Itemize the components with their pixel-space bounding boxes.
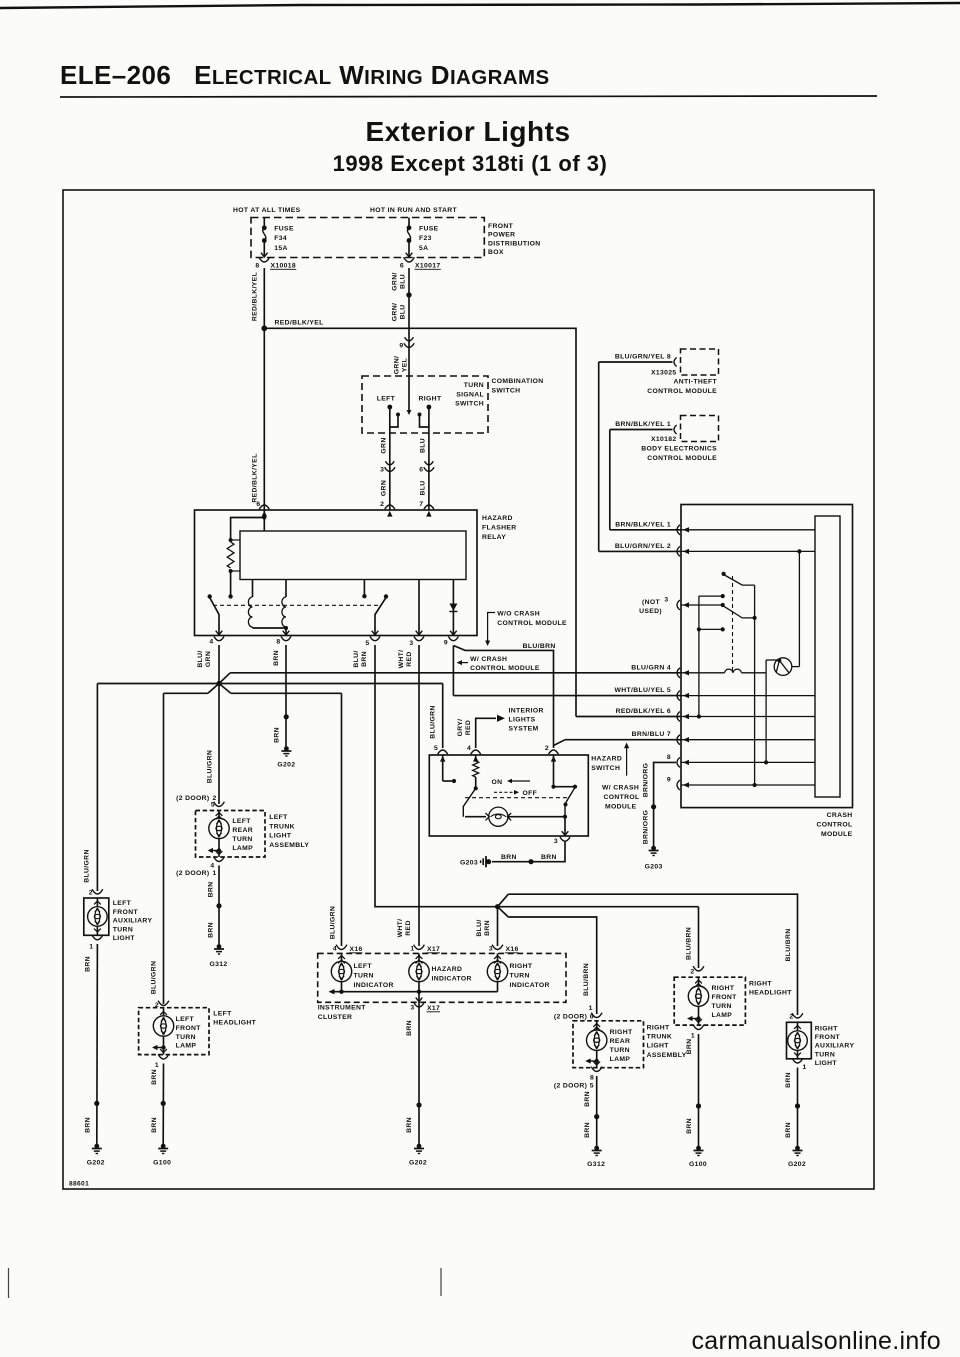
cluster internal ground bus (329, 982, 498, 995)
svg-text:LEFT: LEFT (176, 1016, 195, 1023)
svg-text:BRN/BLK/YEL 1: BRN/BLK/YEL 1 (615, 421, 671, 428)
connector bow at X13025 (674, 358, 677, 367)
label RIGHT TRUNK LIGHT ASSEMBLY (647, 1024, 687, 1059)
svg-text:FUSE: FUSE (419, 226, 439, 233)
hazard switch mechanical link (dashed) (465, 797, 570, 799)
crash module vertical to pin 6 line (697, 596, 701, 719)
label LEFT HEADLIGHT (213, 1011, 256, 1027)
svg-text:1: 1 (89, 944, 93, 951)
connector 6 in-line on BLU wire (419, 461, 434, 473)
svg-text:INDICATOR: INDICATOR (432, 976, 472, 983)
svg-text:(NOT: (NOT (642, 599, 661, 606)
svg-text:1: 1 (155, 1062, 159, 1069)
relay pin 9 exit (450, 631, 457, 635)
wire vertical link pin8 to pin2 line (598, 362, 600, 551)
wire relay resistor branch (231, 518, 265, 541)
hazard switch right blade (564, 785, 578, 817)
svg-text:HAZARD: HAZARD (432, 966, 463, 973)
svg-text:(2 DOOR): (2 DOOR) (176, 795, 209, 802)
connector 3 X16 cluster entry (489, 945, 519, 964)
svg-text:TRUNK: TRUNK (647, 1034, 673, 1041)
node relay left fixed contact (228, 594, 232, 598)
svg-text:FRONT: FRONT (712, 994, 738, 1001)
svg-text:15A: 15A (274, 245, 288, 252)
wire RED/BLK/YEL from fuse F34 down to hazard relay pin 6 (263, 268, 265, 510)
svg-text:HOT AT ALL TIMES: HOT AT ALL TIMES (233, 207, 301, 214)
svg-text:LEFT: LEFT (213, 1011, 232, 1018)
svg-text:GRN: GRN (380, 437, 387, 453)
crash control module box (681, 505, 853, 808)
svg-text:1: 1 (589, 1005, 593, 1012)
wire BRN right rear lamp to ground G312 (594, 1076, 599, 1148)
wire BRN left aux light to ground G202 (94, 944, 99, 1146)
svg-text:BRN/BLU 7: BRN/BLU 7 (632, 731, 671, 738)
svg-text:X17: X17 (427, 946, 440, 953)
hazard switch pin 3 exit (554, 817, 570, 845)
svg-text:AUXILIARY: AUXILIARY (815, 1043, 855, 1050)
svg-text:RIGHT: RIGHT (647, 1024, 670, 1031)
connector 1 at left aux light (89, 935, 103, 951)
svg-text:BLU/GRN/YEL 2: BLU/GRN/YEL 2 (615, 543, 671, 550)
svg-text:4: 4 (209, 639, 213, 646)
ground G203 right (645, 846, 663, 871)
svg-text:1: 1 (691, 1033, 695, 1040)
svg-text:BRN: BRN (361, 651, 368, 667)
connector 9 in-line on GRN/YEL wire (399, 337, 414, 349)
label FRONT POWER DISTRIBUTION BOX (488, 223, 541, 256)
node splice on GRN/BLU wire (406, 292, 411, 297)
svg-text:8: 8 (276, 639, 280, 646)
svg-text:X10182: X10182 (651, 436, 677, 443)
wire BRN relay pin 8 to ground G202 (285, 645, 287, 749)
relay pin 7 entry (424, 505, 434, 509)
svg-text:X17: X17 (427, 1005, 440, 1012)
relay pin 4 exit (216, 631, 223, 635)
svg-text:RIGHT: RIGHT (749, 981, 772, 988)
svg-text:5A: 5A (419, 245, 428, 252)
wire BLU/GRN down to left headlight (163, 693, 165, 1004)
label (2 DOOR) 5 (554, 1083, 594, 1090)
svg-text:8: 8 (590, 1075, 594, 1082)
wire junction horizontal left-right (97, 683, 442, 685)
svg-text:BLU/GRN 4: BLU/GRN 4 (631, 664, 671, 671)
svg-text:RED/BLK/YEL: RED/BLK/YEL (275, 320, 324, 327)
wire lower horizontal right segment to instrument cluster (231, 692, 342, 694)
junction diagonals (208, 673, 231, 694)
ground G312 below left rear lamp (209, 944, 227, 968)
crash module internal dashed link (732, 576, 734, 671)
wire RED/BLK/YEL horizontal branch to right side (264, 328, 576, 716)
connector 3 X17 cluster exit (410, 992, 440, 1012)
crash module vertical from pin2 line to transistor (797, 549, 801, 666)
svg-text:F34: F34 (274, 235, 287, 242)
svg-text:LIGHT: LIGHT (647, 1043, 670, 1050)
label HAZARD FLASHER RELAY (482, 515, 517, 541)
svg-text:BRN: BRN (785, 1072, 792, 1088)
wire BLU from turn switch RIGHT to relay pin 7 (428, 433, 430, 510)
svg-text:BRN: BRN (406, 1020, 413, 1036)
svg-text:carmanualsonline.info: carmanualsonline.info (691, 1327, 941, 1355)
svg-text:HAZARD: HAZARD (482, 515, 513, 522)
svg-text:GRY/: GRY/ (457, 719, 464, 737)
wire BLU/BRN to right front turn lamp (698, 907, 700, 968)
label W/ CRASH CONTROL MODULE with pointer (457, 656, 540, 672)
crash module transistor driver (764, 658, 799, 765)
crash module pin 6 (616, 708, 815, 722)
svg-text:LEFT: LEFT (354, 963, 373, 970)
svg-text:4: 4 (333, 946, 337, 953)
connector 1 at right front aux light (792, 1058, 807, 1071)
node lamps feed junction (495, 904, 500, 909)
svg-text:TURN: TURN (113, 926, 133, 933)
right front turn lamp bulb (687, 977, 709, 1025)
relay right switch blade and pin 5 wire (375, 594, 388, 634)
svg-text:8: 8 (667, 754, 671, 761)
svg-text:3: 3 (409, 640, 413, 647)
svg-text:RED: RED (406, 651, 413, 666)
svg-text:SWITCH: SWITCH (591, 765, 620, 772)
svg-text:9: 9 (444, 640, 448, 647)
svg-text:BLU/: BLU/ (476, 919, 483, 936)
wire lower horizontal left segment to left headlight (164, 692, 208, 694)
svg-text:2: 2 (380, 501, 384, 508)
svg-text:2: 2 (690, 969, 694, 976)
svg-text:W/ CRASH: W/ CRASH (602, 785, 639, 792)
wire RED/BLK/YEL 6 horizontal to crash control module (576, 716, 681, 718)
wire BLU/BRN relay pin 5 down and right to lamps junction (375, 645, 699, 907)
label BLU/BRN at cluster (476, 919, 491, 936)
svg-text:OFF: OFF (523, 790, 538, 797)
svg-text:G203: G203 (645, 864, 663, 871)
svg-text:LIGHT: LIGHT (269, 833, 292, 840)
wire BRN/BLK/YEL 1 horizontal to crash module pin 1 (610, 529, 681, 531)
wire WHT/BLU/YEL 5 horizontal to crash control module (453, 695, 681, 697)
fuse F23 5A (406, 218, 439, 258)
svg-text:LEFT: LEFT (269, 814, 288, 821)
wire BRN right front turn lamp to ground G100 (696, 1034, 701, 1148)
svg-text:INDICATOR: INDICATOR (510, 982, 550, 989)
label RIGHT FRONT AUXILIARY TURN LIGHT (815, 1026, 855, 1067)
left front auxiliary turn light box (84, 898, 109, 935)
connector 8 below right rear lamp (590, 1067, 602, 1082)
ground G202 bottom right (788, 1146, 806, 1168)
left front turn lamp bulb (152, 1008, 174, 1055)
svg-text:BRN: BRN (273, 727, 280, 743)
ground G100 bottom (689, 1146, 707, 1168)
svg-text:TURN: TURN (354, 973, 374, 980)
svg-text:BLU: BLU (419, 480, 426, 495)
crash module upper switch (722, 572, 755, 585)
svg-text:(2 DOOR): (2 DOOR) (176, 870, 209, 877)
svg-text:G202: G202 (409, 1160, 427, 1167)
svg-text:LAMP: LAMP (176, 1043, 197, 1050)
label W/O CRASH CONTROL MODULE with pointer (485, 611, 567, 647)
label GRN/BLU upper (392, 272, 407, 290)
relay pin 2 entry (385, 505, 395, 509)
connector X10017 pin 6 (400, 257, 441, 269)
svg-text:LIGHT: LIGHT (113, 935, 136, 942)
svg-text:TURN: TURN (464, 382, 484, 389)
svg-text:BLU/GRN: BLU/GRN (430, 705, 437, 738)
svg-text:ELE–206 ELECTRICAL WIRING DI: ELE–206 ELECTRICAL WIRING DIAGRAMS (60, 60, 550, 90)
label LEFT REAR TURN LAMP (232, 818, 253, 852)
wire resistor to switch contact (230, 571, 232, 595)
svg-text:BOX: BOX (488, 249, 504, 256)
label (2 DOOR) 1 (176, 870, 217, 877)
junction diagonals right (498, 894, 509, 917)
wire BLU/GRN down to left front auxiliary light (96, 684, 98, 892)
label BLU/GRN below relay pin 4 (197, 650, 212, 667)
label COMBINATION SWITCH (492, 378, 544, 394)
svg-text:GRN: GRN (205, 651, 212, 667)
svg-text:G202: G202 (87, 1160, 105, 1167)
ground G202 bottom far left (87, 1144, 105, 1167)
page edge tick marks (9, 1268, 442, 1298)
svg-text:BLU: BLU (400, 304, 407, 319)
fuse F34 15A (261, 218, 294, 258)
node resistor top (229, 538, 233, 542)
svg-text:BRN: BRN (151, 1069, 158, 1085)
svg-text:W/O CRASH: W/O CRASH (497, 611, 540, 618)
connector 1 X17 cluster entry (410, 945, 440, 964)
relay pin 8 exit (283, 631, 290, 635)
svg-text:USED): USED) (639, 608, 662, 615)
right front turn lamp box (dashed) (674, 977, 745, 1025)
svg-text:REAR: REAR (232, 827, 253, 834)
svg-text:COMBINATION: COMBINATION (492, 378, 544, 385)
relay pin 3 wire from module (418, 580, 420, 635)
svg-text:CONTROL MODULE: CONTROL MODULE (497, 620, 567, 627)
wire BRN/BLK/YEL 1 to body electronics module (610, 429, 673, 431)
relay internal module box (240, 531, 466, 580)
svg-text:BLU/BRN: BLU/BRN (785, 928, 792, 961)
svg-text:BRN: BRN (273, 650, 280, 666)
svg-text:5: 5 (365, 640, 369, 647)
right rear turn lamp bulb (585, 1021, 607, 1068)
hazard flasher relay box (195, 510, 478, 636)
svg-text:CONTROL: CONTROL (816, 822, 852, 829)
svg-text:ASSEMBLY: ASSEMBLY (269, 842, 309, 849)
svg-text:8: 8 (255, 263, 259, 270)
svg-text:(2 DOOR): (2 DOOR) (554, 1083, 587, 1090)
svg-text:SWITCH: SWITCH (492, 387, 521, 394)
svg-text:BRN: BRN (207, 882, 214, 898)
svg-text:RED/BLK/YEL 6: RED/BLK/YEL 6 (616, 708, 671, 715)
hazard switch left blade (463, 788, 475, 816)
svg-text:1: 1 (410, 946, 414, 953)
svg-text:RELAY: RELAY (482, 534, 506, 541)
svg-text:3: 3 (554, 838, 558, 845)
svg-text:BLU/BRN: BLU/BRN (583, 963, 590, 996)
wire BRN/BLU 7 horizontal to crash control module (554, 740, 682, 746)
svg-text:Exterior Lights: Exterior Lights (365, 116, 570, 147)
wire BRN/ORG crash module pin 8 to ground G203 (651, 762, 676, 848)
crash module lower fixed contact (697, 627, 725, 631)
label RIGHT FRONT TURN LAMP (712, 985, 738, 1019)
svg-text:X10018: X10018 (271, 263, 297, 270)
svg-text:X16: X16 (506, 946, 519, 953)
node splice on RED/BLK/YEL wire (261, 325, 267, 331)
left turn indicator lamp (331, 953, 393, 989)
wire WHT/RED relay pin 3 down to instrument cluster (418, 645, 420, 946)
svg-text:HEADLIGHT: HEADLIGHT (213, 1020, 256, 1027)
svg-text:3: 3 (380, 467, 384, 474)
svg-text:RIGHT: RIGHT (419, 396, 442, 403)
label INSTRUMENT CLUSTER (318, 1005, 367, 1022)
crash module pin 9 (667, 777, 815, 791)
svg-text:G312: G312 (587, 1161, 605, 1168)
svg-text:BLU: BLU (400, 274, 407, 289)
svg-text:G203: G203 (460, 860, 478, 867)
wire BLU/BRN to right rear turn lamp (508, 917, 596, 1014)
wire BLU/GRN 4 horizontal to crash control module (230, 672, 681, 674)
ground G202 below cluster (409, 1144, 427, 1167)
relay mechanical link (dashed) (213, 604, 381, 606)
svg-text:BRN: BRN (484, 920, 491, 936)
wire vertical link to crash pin1 line (609, 430, 611, 530)
svg-text:G100: G100 (153, 1160, 171, 1167)
label OFF with dashed arrow (494, 790, 537, 797)
svg-text:ON: ON (492, 779, 503, 786)
connector 3 in-line on GRN wire (380, 461, 395, 473)
label HAZARD SWITCH (591, 756, 622, 773)
relay center contact from module (362, 580, 366, 599)
hazard switch indicator lamp (465, 807, 567, 826)
label ON with arrow (492, 779, 531, 786)
svg-text:CONTROL MODULE: CONTROL MODULE (647, 455, 717, 462)
connector 4 X16 cluster entry (333, 945, 363, 964)
svg-text:88601: 88601 (69, 1181, 89, 1188)
svg-text:FLASHER: FLASHER (482, 525, 517, 532)
connector 2 at left aux light (89, 889, 103, 896)
svg-text:TURN: TURN (815, 1051, 835, 1058)
svg-text:G202: G202 (788, 1161, 806, 1168)
label WHT/RED at cluster (397, 919, 412, 938)
svg-text:DISTRIBUTION: DISTRIBUTION (488, 240, 541, 247)
svg-text:HOT IN RUN AND START: HOT IN RUN AND START (370, 207, 458, 214)
svg-text:2: 2 (89, 890, 93, 897)
svg-text:BRN: BRN (584, 1091, 591, 1107)
left rear turn lamp box (dashed) (196, 811, 266, 858)
connector 2 at right front turn lamp (690, 966, 704, 975)
svg-text:FRONT: FRONT (176, 1025, 202, 1032)
svg-text:BODY ELECTRONICS: BODY ELECTRONICS (641, 446, 717, 453)
svg-text:3: 3 (410, 1005, 414, 1012)
right front auxiliary turn light box (787, 1022, 812, 1059)
svg-text:BRN: BRN (541, 854, 557, 861)
node main left junction (216, 681, 221, 686)
svg-text:TURN: TURN (510, 973, 530, 980)
label ANTI-THEFT CONTROL MODULE (647, 379, 717, 396)
svg-text:SYSTEM: SYSTEM (509, 726, 539, 733)
svg-text:BRN/BLK/YEL 1: BRN/BLK/YEL 1 (615, 521, 671, 528)
svg-text:HAZARD: HAZARD (591, 756, 622, 763)
svg-text:WHT/: WHT/ (398, 650, 405, 669)
label (2 DOOR) 2 and pin 5 (176, 795, 217, 809)
svg-text:GRN/: GRN/ (392, 272, 399, 290)
svg-text:LIGHTS: LIGHTS (509, 717, 536, 724)
svg-text:1: 1 (803, 1064, 807, 1071)
svg-text:RED: RED (465, 720, 472, 735)
connector 6 at right rear lamp (591, 1013, 602, 1018)
label GRN/BLU lower (392, 303, 407, 321)
crash module upper fixed contact (699, 594, 725, 598)
wire GRN from turn switch LEFT to relay pin 2 (389, 433, 391, 510)
label RIGHT REAR TURN LAMP (610, 1029, 633, 1063)
label pin 1 and (2 DOOR) 6 (554, 1005, 594, 1021)
svg-text:3: 3 (664, 597, 668, 604)
label CRASH CONTROL MODULE (816, 812, 852, 838)
wire BRN hazard pin 3 to ground G203 (492, 841, 565, 864)
svg-text:BRN: BRN (785, 1122, 792, 1138)
wire BLU/BRN relay pin 9 to hazard switch pin 2 (453, 646, 553, 749)
anti-theft module X13025 box (dashed) (681, 349, 719, 375)
relay left switch blade and pin 4 wire (208, 594, 220, 634)
svg-text:TURN: TURN (610, 1047, 630, 1054)
svg-text:6: 6 (419, 467, 423, 474)
label INTERIOR LIGHTS SYSTEM (509, 708, 544, 733)
ground G203 at hazard switch (460, 856, 491, 867)
connector 4 below left rear lamp (210, 857, 224, 870)
crash module pin 4 (631, 664, 724, 678)
svg-text:GRN: GRN (380, 480, 387, 496)
label BODY ELECTRONICS CONTROL MODULE (641, 446, 717, 463)
right turn indicator lamp (487, 953, 549, 989)
label GRY/RED (457, 719, 472, 737)
hazard switch resistor (473, 755, 479, 790)
label WHT/RED below relay pin 3 (398, 650, 413, 669)
svg-text:FUSE: FUSE (274, 226, 294, 233)
wire BRN left headlight to ground G100 (161, 1064, 166, 1147)
turn signal switch RIGHT contact (418, 405, 432, 433)
svg-text:G312: G312 (209, 961, 227, 968)
svg-text:TURN: TURN (232, 836, 252, 843)
node resistor bottom (229, 569, 233, 573)
svg-text:BLU/GRN/YEL 8: BLU/GRN/YEL 8 (615, 354, 671, 361)
wire BLU/BRN to right front auxiliary light (508, 894, 797, 1015)
diode inside relay on pin 9 line (449, 580, 457, 635)
inductor on crash module pin 4 line (725, 669, 767, 673)
svg-text:TRUNK: TRUNK (269, 823, 295, 830)
label LEFT FRONT TURN LAMP (176, 1016, 202, 1050)
svg-text:5: 5 (434, 745, 438, 752)
svg-text:X16: X16 (350, 946, 363, 953)
svg-text:BRN: BRN (584, 1122, 591, 1138)
svg-text:AUXILIARY: AUXILIARY (113, 918, 153, 925)
label BLU/BRN below relay pin 5 (353, 650, 368, 667)
svg-text:LEFT: LEFT (377, 396, 396, 403)
svg-text:2: 2 (789, 1014, 793, 1021)
relay pin labels 4 8 5 3 9 (209, 639, 448, 648)
svg-text:X13025: X13025 (651, 370, 677, 377)
turn signal switch center feed wire (407, 376, 412, 415)
body electronics module X10182 box (dashed) (681, 416, 719, 442)
svg-text:FRONT: FRONT (815, 1034, 841, 1041)
wire BLU/BRN junction down to cluster right (497, 907, 499, 946)
wire BLU/GRN down to hazard switch pin 5 (442, 684, 444, 749)
svg-text:TURN: TURN (712, 1003, 732, 1010)
hazard switch pin 2 entry (545, 745, 559, 762)
turn signal switch LEFT contact (387, 405, 400, 433)
label TURN SIGNAL SWITCH (455, 382, 484, 408)
hazard switch pin 2 internal wire (551, 755, 575, 789)
svg-text:CONTROL MODULE: CONTROL MODULE (647, 388, 717, 395)
svg-text:HEADLIGHT: HEADLIGHT (749, 990, 792, 997)
crash module lower switch (721, 603, 755, 618)
svg-text:RIGHT: RIGHT (815, 1026, 838, 1033)
label W/ CRASH CONTROL MODULE with up arrow (602, 743, 640, 811)
svg-text:6: 6 (400, 263, 404, 270)
